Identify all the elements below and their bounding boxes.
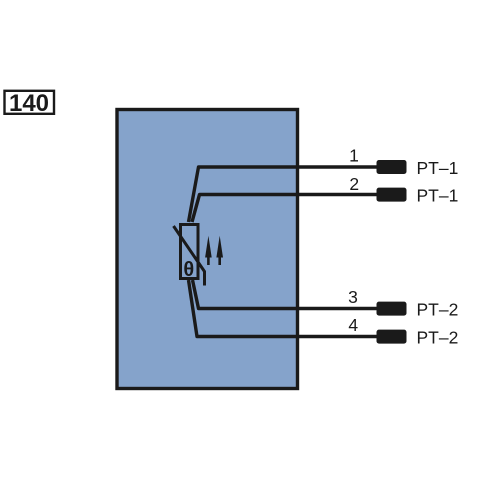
svg-text:3: 3 xyxy=(348,287,358,307)
svg-text:PT–1: PT–1 xyxy=(417,185,459,205)
svg-text:2: 2 xyxy=(349,174,359,194)
svg-text:4: 4 xyxy=(348,315,358,335)
svg-text:140: 140 xyxy=(9,90,49,117)
svg-text:θ: θ xyxy=(183,259,194,281)
svg-text:PT–1: PT–1 xyxy=(417,158,459,178)
svg-text:PT–2: PT–2 xyxy=(417,299,459,319)
svg-text:1: 1 xyxy=(349,145,359,165)
svg-text:PT–2: PT–2 xyxy=(417,327,459,347)
